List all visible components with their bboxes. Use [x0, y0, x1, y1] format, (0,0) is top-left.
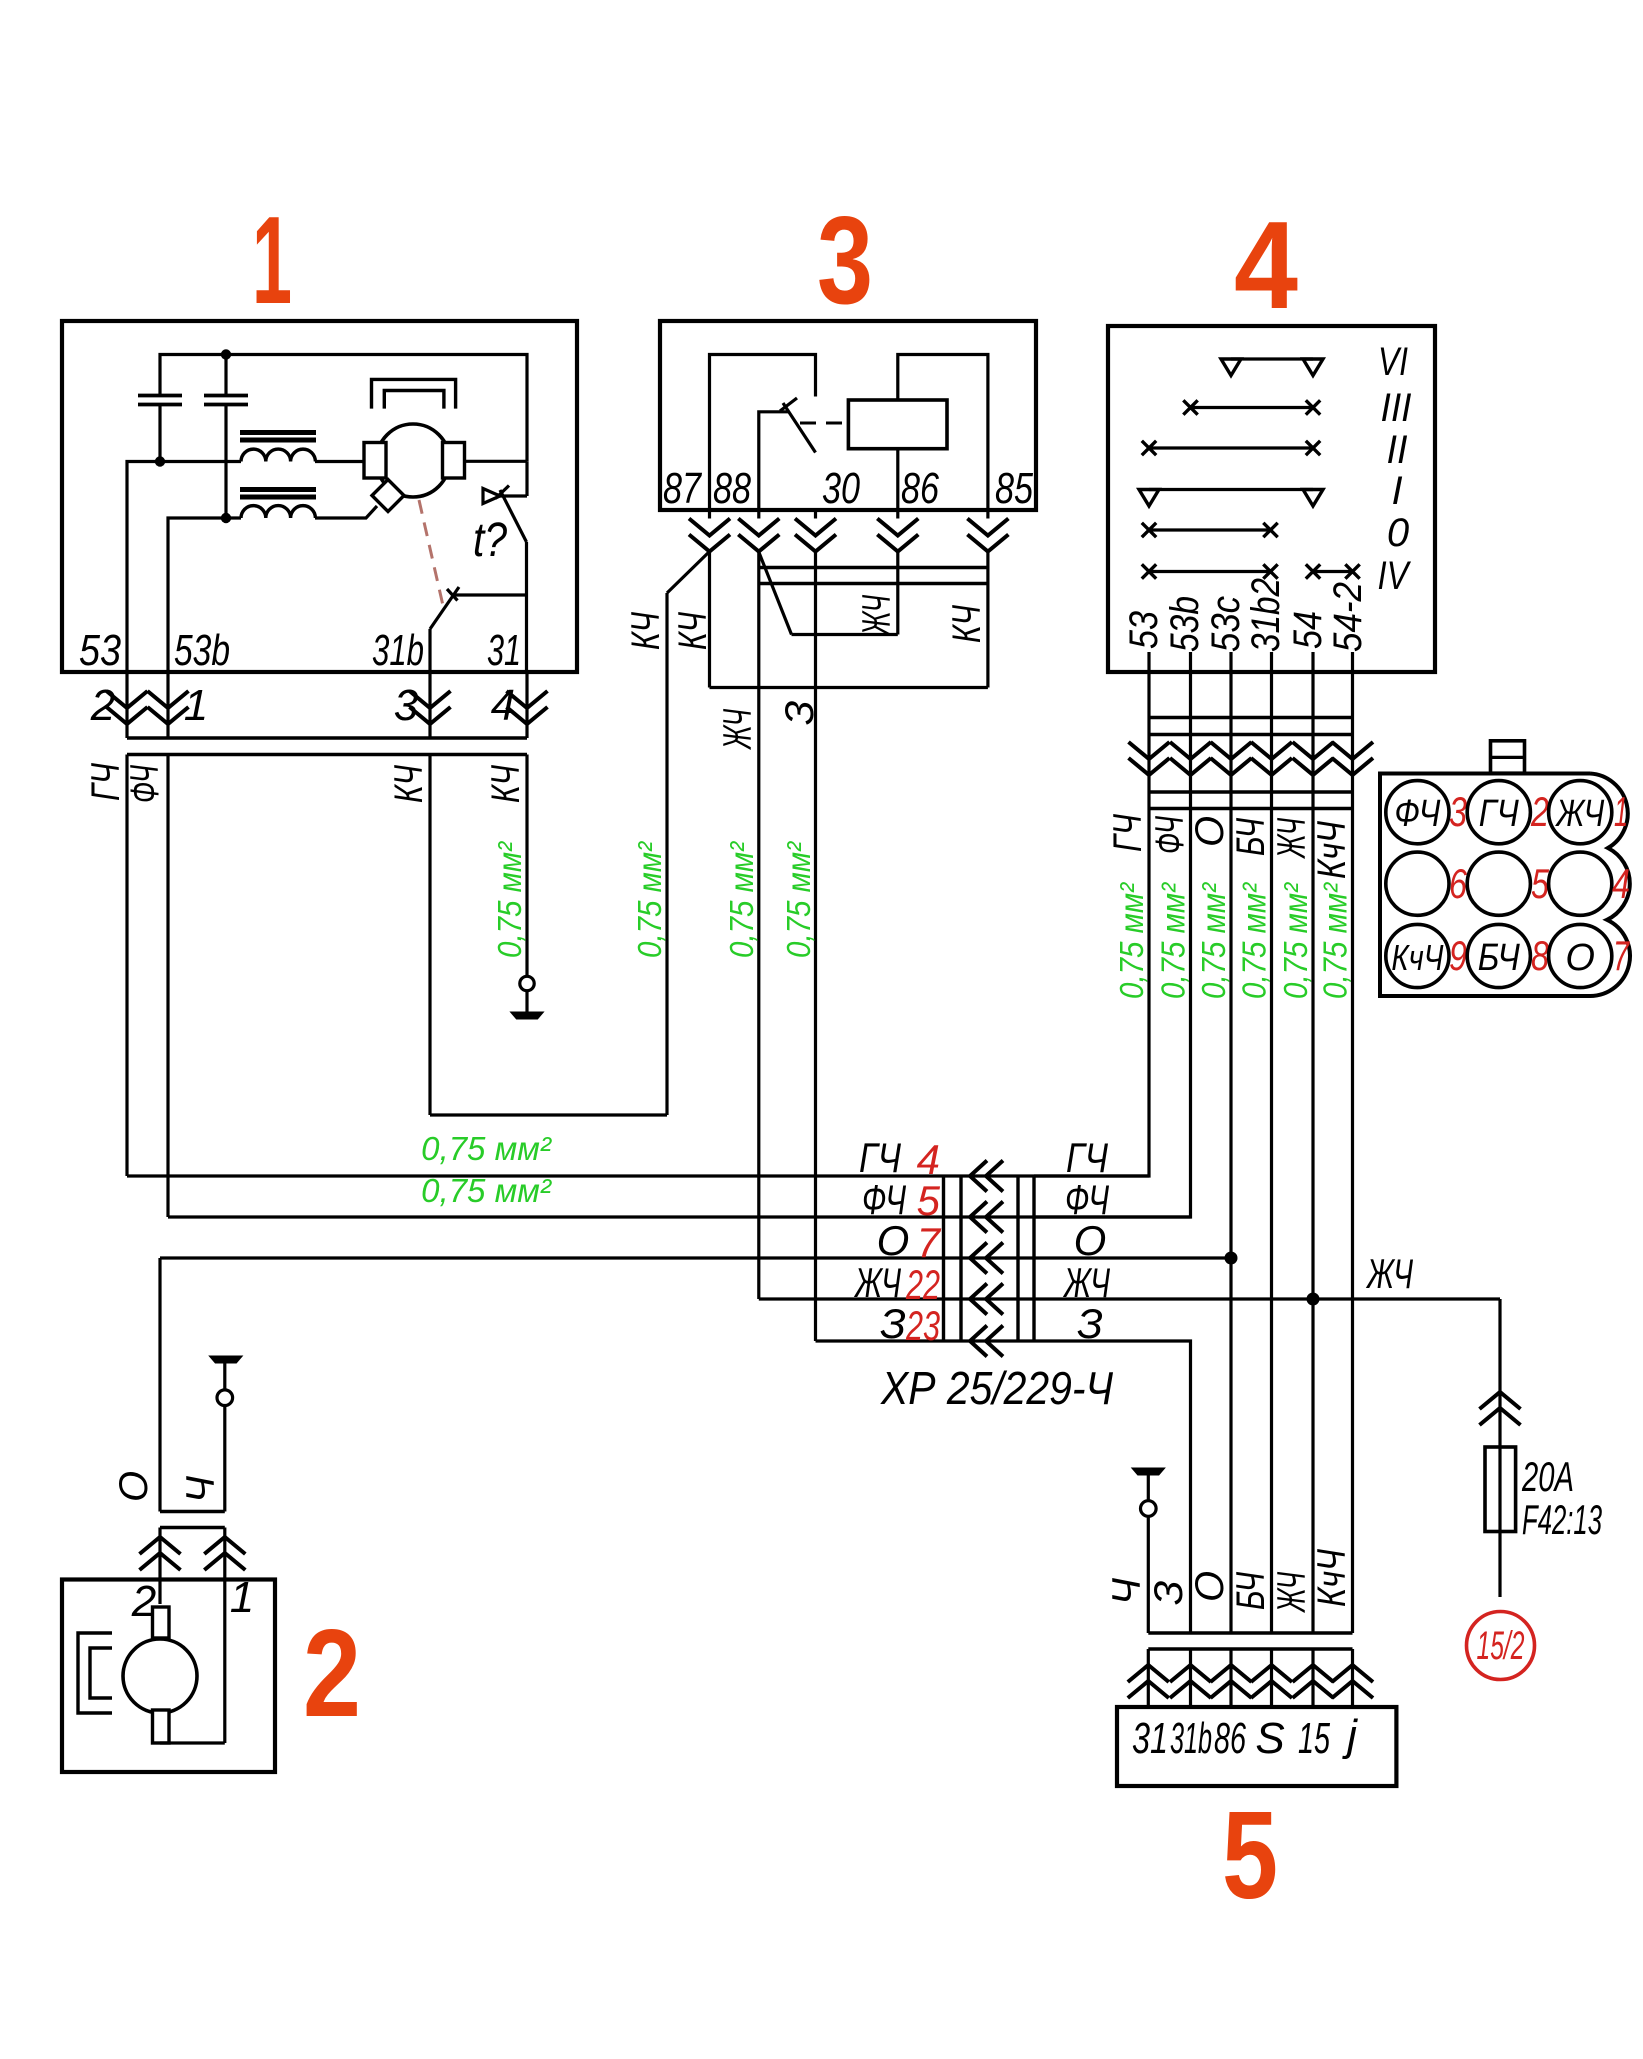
svg-text:О: О: [877, 1217, 910, 1264]
motor M1 armature circle: [377, 424, 450, 497]
svg-text:КчЧ: КчЧ: [1310, 821, 1354, 879]
relay pin arrow 30: [795, 519, 836, 552]
svg-text:ГЧ: ГЧ: [1066, 1134, 1109, 1181]
9-pin connector key tab: [1491, 741, 1525, 773]
switch row II: [1142, 441, 1320, 455]
relay box 3: [660, 321, 1036, 510]
wire from 53b to connector: [166, 672, 169, 738]
wire Ч down to washer pump: [223, 1406, 226, 1512]
relay actuation dashed link: [800, 422, 848, 425]
relay pin 86 stub: [896, 510, 899, 519]
wire from 31b to connector: [428, 672, 431, 738]
block5 wires to pins: [1148, 1649, 1352, 1707]
svg-text:53: 53: [79, 626, 121, 675]
block5 pin arrows: [1128, 1665, 1373, 1698]
svg-text:1: 1: [252, 192, 292, 330]
relay pin arrow 86: [877, 519, 918, 552]
relay coil bottom lead to 86: [896, 449, 899, 510]
svg-text:7: 7: [1613, 932, 1630, 979]
svg-text:З: З: [778, 700, 822, 725]
XP pin arrow ЖЧ: [970, 1284, 1003, 1315]
ground link stub (block 5): [1147, 1475, 1150, 1501]
svg-text:З: З: [1147, 1580, 1191, 1605]
wire ФЧ from switch 53b: [1034, 809, 1191, 1218]
svg-text:0,75 мм²: 0,75 мм²: [780, 841, 817, 958]
svg-text:87: 87: [663, 464, 702, 513]
commutator bracket above motor: [372, 379, 456, 408]
svg-text:86: 86: [1214, 1714, 1246, 1763]
wire L1 to motor brush: [315, 460, 364, 463]
svg-text:S: S: [1255, 1714, 1284, 1763]
connector pin 6: [1386, 852, 1449, 915]
XP pin arrow ГЧ: [970, 1161, 1003, 1192]
wiper motor unit box 1: [62, 321, 577, 672]
XP connector left bars: [944, 1176, 962, 1341]
relay pin arrow 87: [689, 519, 730, 552]
svg-text:ХР 25/229-Ч: ХР 25/229-Ч: [880, 1362, 1114, 1414]
svg-text:II: II: [1387, 428, 1408, 472]
svg-text:86: 86: [901, 464, 939, 513]
svg-text:22: 22: [905, 1261, 940, 1308]
XP pin arrow О: [970, 1243, 1003, 1274]
svg-text:53c: 53c: [1204, 596, 1248, 652]
internal supply bus (top line) of unit 1: [160, 355, 527, 462]
park switch contact tick: [447, 589, 458, 601]
svg-text:ФЧ: ФЧ: [862, 1176, 907, 1223]
svg-text:5: 5: [917, 1177, 941, 1224]
svg-text:1: 1: [1614, 788, 1628, 835]
svg-text:0,75 мм²: 0,75 мм²: [1155, 882, 1192, 999]
svg-text:ФЧ: ФЧ: [123, 765, 167, 803]
switch terminal stubs: [1149, 652, 1353, 672]
svg-text:31: 31: [1132, 1714, 1168, 1763]
pump pin arrow 1: [204, 1537, 245, 1570]
svg-text:4: 4: [917, 1136, 940, 1183]
junction dot ЖЧ: [1307, 1293, 1320, 1306]
pump motor bottom brush: [153, 1710, 170, 1743]
svg-text:ЖЧ: ЖЧ: [716, 709, 760, 750]
connector pin ГЧ (2): [1467, 781, 1530, 844]
junction dot О: [1225, 1252, 1238, 1265]
svg-text:85: 85: [995, 464, 1033, 513]
washer pump box 2: [62, 1580, 275, 1773]
9-pin connector body: [1380, 774, 1630, 997]
svg-text:0,75 мм²: 0,75 мм²: [1277, 882, 1314, 999]
svg-text:53b: 53b: [174, 626, 230, 675]
choke L2 core: [240, 490, 316, 498]
connector pin БЧ (8): [1467, 924, 1530, 987]
wire down to fuse: [1498, 1299, 1501, 1447]
relay coil: [848, 400, 947, 449]
capacitor C1: [138, 396, 182, 462]
ground wire stub: [525, 991, 528, 1012]
svg-text:0,75 мм²: 0,75 мм²: [631, 841, 668, 958]
wire З row right: [1034, 1341, 1191, 1633]
junction dot capacitor C2 / L2 wire: [221, 513, 231, 523]
switch row III: [1183, 400, 1320, 414]
svg-text:31b2: 31b2: [1244, 578, 1288, 652]
wire О down to washer pump: [158, 1258, 161, 1512]
svg-text:54: 54: [1286, 611, 1330, 649]
wire О row left (from washer pump): [160, 1256, 944, 1259]
svg-text:О: О: [112, 1471, 156, 1502]
svg-text:6: 6: [1449, 860, 1467, 907]
svg-text:ГЧ: ГЧ: [1106, 814, 1150, 852]
wire ФЧ down from pin 1: [166, 755, 169, 1218]
svg-text:I: I: [1391, 469, 1402, 513]
wire ЖЧ row left (from relay 88): [759, 1297, 944, 1300]
relay contact 87 branch: [710, 355, 816, 511]
svg-text:7: 7: [917, 1219, 942, 1266]
wire 86 vertical: [896, 552, 899, 635]
wire from 53 to connector: [125, 672, 128, 738]
pump stator bracket: [78, 1633, 112, 1713]
connector pin КчЧ (9): [1386, 924, 1449, 987]
svg-text:F42:13: F42:13: [1522, 1496, 1602, 1543]
XP connector right bars: [1018, 1176, 1034, 1341]
wire 53b feed to choke L2: [168, 518, 241, 672]
wire О from switch 53c: [1229, 809, 1232, 1634]
wire З down from 30: [814, 552, 817, 1342]
svg-text:IV: IV: [1378, 554, 1412, 598]
svg-text:ГЧ: ГЧ: [84, 763, 128, 801]
relay connector bars: [759, 568, 988, 584]
wire 53 feed to choke L1: [127, 462, 241, 673]
wire 86-88 jumper slant: [759, 552, 792, 635]
svg-text:0,75 мм²: 0,75 мм²: [1195, 882, 1232, 999]
junction dot capacitor C2 / top bus: [221, 349, 231, 359]
svg-text:ЖЧ: ЖЧ: [1366, 1250, 1414, 1297]
motor M1 left brush: [364, 443, 386, 479]
choke L1 core: [240, 433, 316, 441]
svg-text:5: 5: [1222, 1787, 1278, 1925]
svg-text:23: 23: [905, 1302, 940, 1349]
svg-text:0,75 мм²: 0,75 мм²: [1236, 882, 1273, 999]
wire КЧ vertical (87 to motor 31b): [665, 593, 668, 1115]
wire З row left (from relay 30): [816, 1339, 944, 1342]
switch row VI: [1221, 359, 1323, 376]
svg-text:III: III: [1381, 386, 1412, 430]
XP pin arrow ФЧ: [970, 1202, 1003, 1233]
svg-text:З: З: [880, 1300, 906, 1347]
pump motor return wire: [160, 1741, 225, 1744]
wire ГЧ down from pin 2: [125, 755, 128, 1177]
svg-text:t?: t?: [473, 514, 507, 567]
svg-text:ГЧ: ГЧ: [859, 1134, 902, 1181]
fuse wire through: [1498, 1447, 1501, 1597]
choke L1 coil: [241, 449, 315, 461]
svg-text:ЖЧ: ЖЧ: [854, 1259, 902, 1306]
junction dot capacitor C1 / L1 wire: [155, 456, 165, 466]
svg-text:0,75 мм²: 0,75 мм²: [421, 1172, 552, 1209]
ground link stub: [223, 1363, 226, 1390]
svg-text:КЧ: КЧ: [624, 612, 668, 650]
svg-text:53b: 53b: [1163, 596, 1207, 652]
connector pin 5: [1467, 852, 1530, 915]
link wire 31b to relay 87 (КЧ): [430, 1113, 667, 1116]
wire О row right: [1034, 1256, 1231, 1259]
svg-text:4: 4: [1234, 197, 1298, 335]
green size labels on switch wires: [1113, 882, 1354, 999]
pin arrow 1: [148, 691, 189, 724]
pump pin arrow 2: [140, 1537, 181, 1570]
svg-text:КЧ: КЧ: [671, 612, 715, 650]
relay pin 88 stub: [757, 510, 760, 519]
wire ЖЧ row right to fuse: [1034, 1297, 1500, 1300]
wire from 31 to connector: [525, 672, 528, 738]
svg-text:VI: VI: [1378, 340, 1408, 384]
switch connector upper bars: [1149, 718, 1353, 735]
pin arrow 2: [107, 691, 148, 724]
wire ФЧ row left: [168, 1215, 944, 1218]
svg-text:20A: 20A: [1521, 1453, 1574, 1500]
svg-text:15: 15: [1298, 1714, 1330, 1763]
svg-text:КЧ: КЧ: [945, 605, 989, 643]
wire БЧ from switch 31b2: [1270, 809, 1273, 1634]
svg-text:1: 1: [184, 681, 208, 730]
svg-text:Ч: Ч: [1105, 1578, 1149, 1605]
svg-text:ФЧ: ФЧ: [1148, 816, 1192, 854]
relay terminal 88 branch: [759, 412, 789, 510]
wire ГЧ from switch 53: [1034, 809, 1149, 1177]
svg-text:2: 2: [303, 1605, 361, 1743]
park cam dashed link: [419, 500, 444, 610]
svg-text:53: 53: [1122, 611, 1166, 649]
choke L2 coil: [241, 506, 315, 518]
svg-text:ФЧ: ФЧ: [1394, 793, 1440, 835]
switch row IV right pair: [1306, 564, 1360, 578]
svg-text:ЖЧ: ЖЧ: [1270, 818, 1314, 859]
svg-text:ГЧ: ГЧ: [1479, 793, 1519, 835]
svg-text:4: 4: [1612, 860, 1630, 907]
pump motor circle: [123, 1639, 197, 1713]
svg-text:Ч: Ч: [179, 1476, 223, 1503]
svg-text:30: 30: [822, 464, 860, 513]
wire 87-85 loop horizontal: [710, 686, 988, 689]
wire Ч to 31: [1147, 1516, 1150, 1633]
svg-text:КЧ: КЧ: [387, 765, 431, 803]
XP pin arrow З: [970, 1326, 1003, 1357]
svg-text:0,75 мм²: 0,75 мм²: [1317, 882, 1354, 999]
connector pin 4: [1549, 852, 1612, 915]
svg-text:КчЧ: КчЧ: [1391, 937, 1444, 978]
ground bolt circle (washer pump): [217, 1390, 233, 1406]
connector bars under unit 1: [127, 738, 527, 755]
wire ГЧ row right: [1034, 1174, 1149, 1177]
svg-text:3: 3: [1449, 788, 1467, 835]
svg-text:15/2: 15/2: [1477, 1624, 1525, 1668]
switch row IV left pair: [1142, 564, 1278, 578]
relay pin 87 stub: [708, 510, 711, 519]
svg-text:2: 2: [90, 681, 115, 730]
thermal switch t? blade: [496, 486, 527, 543]
fuse F42:13 body: [1485, 1447, 1516, 1532]
connector pin ЖЧ (1): [1549, 781, 1612, 844]
svg-text:88: 88: [713, 464, 751, 513]
pump motor top brush: [153, 1607, 170, 1638]
block5 connector bars: [1148, 1633, 1352, 1649]
wire 86-88 jumper horizontal: [792, 633, 898, 636]
svg-text:КчЧ: КчЧ: [1310, 1549, 1354, 1607]
relay armature blade: [780, 398, 816, 453]
switch connector lower bars: [1149, 792, 1353, 809]
wire ЖЧ down from 88: [757, 552, 760, 1300]
connector pin О (7): [1549, 924, 1612, 987]
svg-text:ЖЧ: ЖЧ: [1555, 793, 1605, 835]
wire ЖЧ from switch 54: [1311, 809, 1314, 1634]
svg-text:31b: 31b: [1170, 1714, 1212, 1763]
instrument connector box 5: [1117, 1707, 1396, 1786]
fuse pin arrow: [1480, 1392, 1521, 1425]
park switch fixed line: [452, 593, 527, 596]
svg-text:О: О: [1565, 937, 1595, 979]
relay pin 30 stub: [814, 510, 817, 519]
wiper switch box 4: [1108, 326, 1435, 672]
svg-text:БЧ: БЧ: [1229, 1572, 1273, 1610]
ground bolt circle (motor 31): [520, 976, 534, 990]
motor M1 third brush (diagonal): [372, 480, 404, 512]
relay coil top lead to 85: [898, 355, 988, 511]
svg-text:0: 0: [1387, 511, 1409, 555]
svg-text:ЖЧ: ЖЧ: [855, 595, 899, 636]
relay pin arrow 85: [967, 519, 1008, 552]
washer pump connector bars: [160, 1512, 225, 1528]
capacitor C2: [204, 355, 248, 519]
wire КчЧ from switch 54-2: [1351, 809, 1354, 1634]
switch wires to connector: [1149, 672, 1353, 809]
pin arrow 4: [507, 691, 548, 724]
ground symbol (motor 31): [511, 1012, 544, 1019]
wire ФЧ row right: [1034, 1215, 1191, 1218]
svg-text:3: 3: [394, 681, 419, 730]
switch row I: [1139, 490, 1323, 507]
ground bolt circle (block 5): [1141, 1501, 1157, 1517]
relay pin arrow 88: [738, 519, 779, 552]
relay pin 85 stub: [986, 510, 989, 519]
wire 87 slant to КЧ: [667, 552, 710, 594]
svg-text:4: 4: [491, 681, 515, 730]
wire right brush to 31 bus: [465, 460, 528, 463]
wire 85 vertical: [986, 552, 989, 688]
wire КЧ down from pin 4 to ground: [525, 755, 528, 977]
thermal switch t? fixed contact: [483, 461, 527, 503]
motor M1 right brush: [443, 443, 465, 479]
pump wires to pins: [160, 1528, 225, 1744]
wire 31 vertical: [525, 542, 528, 672]
svg-text:0,75 мм²: 0,75 мм²: [491, 841, 528, 958]
park switch blade 31b: [430, 587, 459, 672]
svg-text:9: 9: [1449, 932, 1467, 979]
svg-text:8: 8: [1531, 932, 1549, 979]
switch row 0: [1142, 523, 1278, 537]
svg-text:БЧ: БЧ: [1229, 818, 1273, 856]
svg-text:31b: 31b: [372, 626, 424, 675]
svg-text:О: О: [1188, 816, 1232, 847]
svg-text:31: 31: [487, 626, 521, 675]
row wires through XP connector: [944, 1176, 1035, 1341]
svg-text:О: О: [1188, 1571, 1232, 1602]
svg-text:ЖЧ: ЖЧ: [1270, 1572, 1314, 1613]
svg-text:0,75 мм²: 0,75 мм²: [421, 1130, 552, 1167]
svg-text:3: 3: [817, 192, 873, 330]
svg-text:2: 2: [1530, 788, 1549, 835]
svg-text:КЧ: КЧ: [484, 765, 528, 803]
wire L2 to third brush: [315, 506, 377, 518]
connector pin ФЧ (3): [1386, 781, 1449, 844]
svg-text:БЧ: БЧ: [1478, 937, 1520, 979]
pin arrow 3: [410, 691, 451, 724]
svg-text:54-2: 54-2: [1326, 582, 1370, 652]
power source circle 15/2: [1467, 1612, 1535, 1680]
svg-text:5: 5: [1531, 860, 1549, 907]
svg-text:1: 1: [230, 1573, 254, 1622]
switch pin arrows: [1129, 742, 1374, 775]
wire ГЧ row left: [127, 1174, 944, 1177]
ground symbol (washer pump): [209, 1356, 242, 1363]
svg-text:0,75 мм²: 0,75 мм²: [1113, 882, 1150, 999]
ground symbol (block 5): [1132, 1468, 1165, 1475]
wire 87 to 85 loop vertical: [708, 552, 711, 688]
wire КЧ down from pin 3: [428, 755, 431, 1116]
svg-text:0,75 мм²: 0,75 мм²: [723, 841, 760, 958]
